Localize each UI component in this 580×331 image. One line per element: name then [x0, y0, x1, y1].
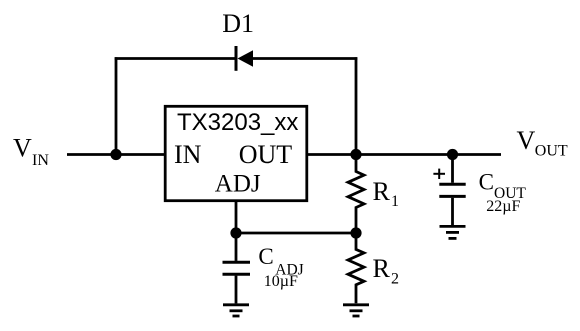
svg-text:IN: IN — [174, 140, 202, 169]
svg-text:V: V — [517, 126, 536, 155]
capacitor C_OUT polarity + — [433, 169, 445, 179]
capacitor C_OUT — [439, 155, 465, 226]
wire right vertical of diode loop — [355, 57, 358, 154]
svg-text:TX3203_xx: TX3203_xx — [177, 109, 298, 136]
wire ADJ node to R1/R2 junction — [236, 232, 356, 235]
diode D1 cathode bar — [235, 46, 238, 71]
svg-text:OUT: OUT — [239, 140, 293, 169]
svg-text:22µF: 22µF — [486, 198, 520, 215]
svg-text:V: V — [13, 134, 32, 163]
node OUT loop junction — [350, 149, 361, 160]
svg-text:D1: D1 — [222, 9, 254, 38]
resistor R2 — [348, 233, 364, 303]
capacitor C_ADJ — [223, 233, 251, 303]
svg-text:IN: IN — [32, 152, 49, 169]
wire input V_IN to regulator IN pin — [67, 153, 164, 156]
resistor R1 — [348, 155, 364, 234]
wire ADJ pin lead down — [235, 201, 238, 233]
node input junction — [110, 149, 121, 160]
ground below C_OUT — [440, 226, 466, 238]
node output cap junction — [447, 149, 458, 160]
wire top horizontal left of diode — [115, 57, 237, 60]
svg-text:R: R — [373, 254, 391, 283]
diode D1 triangle — [238, 50, 254, 67]
svg-text:C: C — [258, 244, 273, 269]
wire left vertical of diode loop — [115, 57, 118, 154]
op-amp U1 regulator box TX3203_xx — [165, 106, 307, 200]
svg-text:OUT: OUT — [535, 143, 568, 160]
svg-text:ADJ: ADJ — [215, 171, 261, 198]
node ADJ cap junction — [230, 227, 241, 238]
wire regulator OUT to V_OUT — [307, 153, 501, 156]
ground below C_ADJ — [223, 305, 249, 316]
svg-text:10µF: 10µF — [264, 273, 298, 290]
wire top horizontal right of diode — [252, 57, 357, 60]
svg-text:C: C — [479, 170, 494, 195]
node ADJ junction — [350, 227, 361, 238]
svg-text:1: 1 — [391, 193, 399, 210]
ground below R2 — [343, 305, 369, 316]
svg-text:2: 2 — [391, 271, 399, 288]
svg-text:R: R — [373, 177, 391, 206]
